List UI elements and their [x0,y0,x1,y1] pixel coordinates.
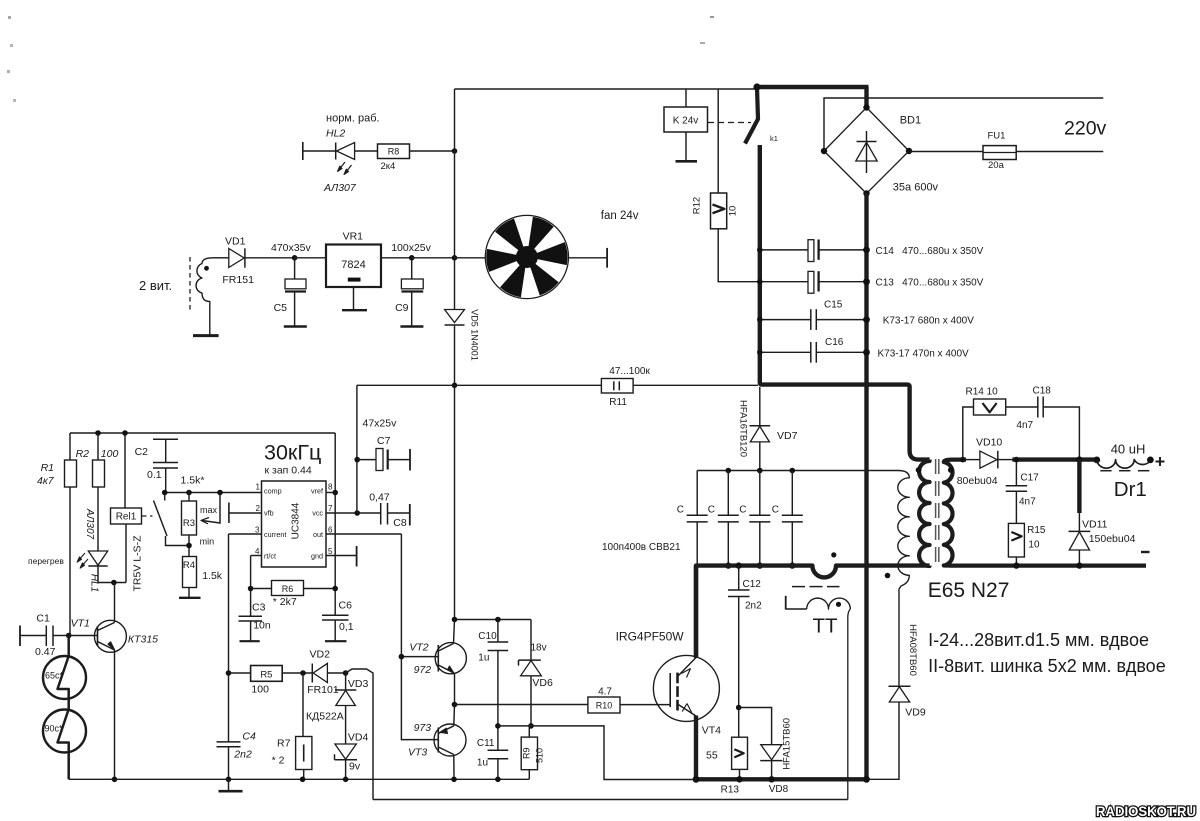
svg-text:R6: R6 [282,584,294,594]
svg-text:40 uH: 40 uH [1111,441,1146,456]
svg-text:HFA15TB60: HFA15TB60 [781,718,792,770]
pin2 terminal [229,512,262,514]
thick negative rail vertical [864,194,868,780]
IC UC3844 box [262,481,327,567]
node R13/VD8 [736,705,742,711]
svg-text:gnd: gnd [311,551,323,560]
svg-text:R10: R10 [596,701,613,711]
gnd pin5 terminal [326,555,357,557]
LED HL1 [88,551,107,565]
pin3 wire current sense [229,533,262,535]
svg-text:АЛ307: АЛ307 [84,508,95,540]
thick bottom emitter bus [694,777,867,781]
svg-text:C5: C5 [274,302,288,314]
svg-text:КТ315: КТ315 [128,634,158,646]
svg-text:C: C [739,505,746,516]
relay coil K 24v [664,107,708,132]
transistor VT4 IGBT circle [653,655,719,721]
svg-text:2n2: 2n2 [233,749,252,761]
VT4 collector arrow [682,669,691,678]
svg-text:0,47: 0,47 [369,491,390,503]
capacitor C13 (electrolytic) [808,271,814,293]
svg-text:VD8: VD8 [769,784,789,795]
potentiometer R3 [188,493,190,502]
BD1 vertex nodes [863,104,869,110]
thick primary bottom bus with TT hump [696,566,930,657]
svg-text:1u: 1u [478,652,489,663]
svg-text:510: 510 [535,748,545,763]
wire comp row [165,492,262,494]
wire out-line to VT2 base [401,656,438,658]
TT secondary winding [807,598,851,609]
svg-text:C13 470...680u x 350V: C13 470...680u x 350V [876,278,984,289]
svg-text:30кГц: 30кГц [264,441,321,465]
svg-text:I-24...28вит.d1.5 мм. вдвое: I-24...28вит.d1.5 мм. вдвое [928,630,1149,650]
svg-text:55: 55 [706,750,718,762]
svg-text:470x35v: 470x35v [271,242,311,254]
svg-text:4n7: 4n7 [1016,420,1033,431]
svg-text:VD5 1N4001: VD5 1N4001 [470,309,480,361]
fan motor symbol [485,215,568,298]
svg-text:10n: 10n [253,619,271,631]
relay Rel1 [122,430,128,436]
thermal switch contact [164,493,166,501]
transistor VT3 (973 PNP) [434,724,466,756]
capacitor C3 [248,586,254,592]
svg-text:VD4: VD4 [348,732,369,744]
svg-text:VD10: VD10 [976,437,1002,449]
capacitor C9 (electrolytic) [411,258,413,279]
svg-text:K73-17 680n x 400V: K73-17 680n x 400V [883,316,975,327]
bottom rail left [69,778,530,780]
svg-text:1u: 1u [477,758,488,769]
svg-text:C8: C8 [393,517,407,529]
svg-text:100x25v: 100x25v [391,242,431,254]
svg-text:47...100к: 47...100к [609,366,650,377]
resistor R4 [183,557,197,588]
svg-text:1.5k*: 1.5k* [181,475,205,487]
svg-text:80ebu04: 80ebu04 [957,475,998,487]
K24v ground [685,132,687,161]
capacitor C13 row wire [760,281,808,283]
thick bus: k1 contact down, across, into transformer primary [760,145,930,460]
svg-text:* 2k7: * 2k7 [273,596,297,608]
wire mid node to R10 [455,704,588,706]
svg-text:FU1: FU1 [988,131,1006,142]
out pin6 wire [326,533,401,535]
svg-text:K73-17 470n x 400V: K73-17 470n x 400V [878,348,970,359]
svg-text:20a: 20a [988,160,1005,171]
svg-text:1.5k: 1.5k [202,570,223,582]
VR1 ground pin [353,287,355,310]
thermal contact 90c [43,710,86,753]
pin4 wire rt/ct [251,555,262,557]
svg-text:5: 5 [328,547,333,556]
svg-text:comp: comp [264,486,282,495]
TT core dashes [792,586,805,588]
svg-text:7: 7 [328,504,333,513]
LED HL2 left terminal bar [302,142,304,160]
svg-text:R11: R11 [609,397,627,408]
wire jog to lower rail [346,669,373,800]
transformer secondary winding (thick arcs) [944,460,1146,566]
svg-text:TT: TT [812,615,838,638]
aux winding 2 turns [196,258,213,336]
svg-text:VT2: VT2 [409,642,428,654]
wire to relay coil K24v [685,89,687,107]
svg-text:4.7: 4.7 [598,687,612,698]
svg-text:R8: R8 [388,147,400,157]
wire +24v vertical rail [454,89,456,310]
node R7 branch [300,670,306,676]
text - output [1141,551,1150,553]
svg-text:BD1: BD1 [900,115,921,127]
svg-text:C4: C4 [242,731,256,743]
dashed relay link [708,122,751,124]
svg-text:Rel1: Rel1 [116,512,137,523]
svg-text:4к7: 4к7 [37,475,55,487]
svg-text:* 2: * 2 [272,755,285,767]
svg-text:R13: R13 [721,785,740,796]
node VD3 branch [343,670,349,676]
svg-text:FR151: FR151 [222,274,254,286]
resistor R5 [251,666,283,682]
svg-text:2: 2 [256,504,261,513]
svg-text:10: 10 [728,206,739,217]
snubber capacitor C #3 [759,471,761,516]
resistor R8 [378,144,410,159]
svg-text:C6: C6 [339,600,353,612]
dashed link Rel1 to thermal switch [142,515,153,517]
svg-text:7824: 7824 [341,259,365,271]
primary polarity dot [916,467,922,473]
svg-text:E65 N27: E65 N27 [928,579,1010,602]
diode VD7 [759,387,761,426]
svg-text:VT3: VT3 [408,747,427,759]
svg-text:R9: R9 [521,747,531,759]
transistor VT2 (972 NPN) [435,643,466,674]
svg-text:vfb: vfb [264,508,274,517]
vcc pin7 wire [326,512,381,514]
wire HL2 anode [303,150,336,152]
svg-text:HFA16TB120: HFA16TB120 [738,400,749,457]
wire R10 to gate [620,704,670,706]
LED HL2 diode symbol [335,143,337,160]
wire R8 to +24v vertical [410,150,455,152]
thick collector wire [694,566,698,658]
svg-text:out: out [313,530,323,539]
svg-text:0.47: 0.47 [35,646,56,658]
feedback winding polarity dot [885,573,891,579]
diode VD11 [1078,513,1080,531]
capacitor C12 [736,562,742,568]
resistor R15 [1008,523,1024,557]
svg-text:VR1: VR1 [343,230,364,242]
svg-text:C12: C12 [743,579,762,590]
resistor R6 [272,581,304,596]
wire HL2 to R8 [355,150,378,152]
node C5 [292,255,298,261]
svg-text:vcc: vcc [312,508,323,517]
capacitor C15 row [760,319,811,321]
svg-text:973: 973 [414,722,432,734]
VT4 collector lead [678,658,697,677]
wire driver top row [455,619,532,621]
thermal contact 65c [43,656,86,699]
wire C9 node to fan [412,257,486,259]
svg-text:2n2: 2n2 [745,601,762,612]
svg-text:R7: R7 [277,737,291,749]
svg-text:IRG4PF50W: IRG4PF50W [616,630,685,644]
svg-text:C: C [708,505,715,516]
vref vertical rail [334,433,336,615]
aux winding ground bar [193,334,219,337]
wire VD5 down to R11 row [454,325,456,385]
wire VD1 to C5 node [245,257,295,259]
wire C12 to R13 node [738,597,740,738]
wire top feed horizontal [455,88,758,90]
vcc vertical to R11 row [356,385,358,513]
svg-text:C14 470...680u x 350V: C14 470...680u x 350V [876,246,984,257]
svg-text:150ebu04: 150ebu04 [1089,533,1136,545]
wire to R12 [717,89,719,193]
secondary polarity dot [948,467,954,473]
svg-text:18v: 18v [531,643,547,654]
wire bridge right vertex to fuse [909,151,983,153]
svg-text:k1: k1 [770,134,778,143]
wire fan to terminal [569,257,608,259]
switch k1 blade (thick) [745,88,758,144]
aux winding polarity dot [204,266,209,271]
svg-text:R5: R5 [260,670,272,681]
svg-text:VD11: VD11 [1082,518,1108,530]
aux winding core dashed line [189,257,191,310]
wire R11 row [357,384,602,386]
svg-text:C7: C7 [377,435,391,447]
svg-text:АЛ307: АЛ307 [323,182,357,194]
wire VD9 to bottom bus [867,702,900,779]
HL1 emission arrows [77,553,88,568]
svg-text:R4: R4 [183,560,195,571]
main ground symbol [226,777,232,783]
wire C5 node to VR1 [295,257,326,259]
svg-text:RADIOSKOT.RU: RADIOSKOT.RU [1096,804,1196,819]
svg-text:C10: C10 [478,631,497,642]
snubber capacitor C #2 [727,471,729,516]
svg-text:Dr1: Dr1 [1114,478,1147,501]
TT right lead to lower rail [848,609,851,800]
wire node to VD8 [739,708,772,745]
diode VD5 1N4001 [445,310,465,323]
node R8/+24v [452,148,458,154]
snubber capacitor C #4 [791,471,793,516]
svg-text:100: 100 [251,684,269,696]
svg-text:к зап 0.44: к зап 0.44 [265,465,312,477]
capacitor C14 (electrolytic) [808,240,814,262]
svg-text:TR5V L-S-Z: TR5V L-S-Z [132,535,144,592]
svg-text:C17: C17 [1020,473,1039,484]
svg-text:vref: vref [311,486,323,495]
text + output [1156,457,1165,466]
svg-text:220v: 220v [1064,118,1107,140]
TT left terminal [786,608,807,610]
thick secondary positive bus [1012,457,1097,461]
VT4 emitter arrow [682,704,692,713]
svg-text:2к4: 2к4 [381,161,396,172]
svg-text:3: 3 [255,525,260,534]
fan terminal bar [606,248,608,268]
capacitor C17 [1015,460,1017,486]
svg-text:UC3844: UC3844 [291,502,302,539]
svg-text:max: max [200,505,218,515]
wire bridge left vertex to 220v line [824,98,1103,151]
TT hump polarity dot [831,552,836,557]
capacitor C5 (electrolytic) [294,258,296,279]
svg-text:перегрев: перегрев [28,556,64,566]
node R11 row [452,383,458,389]
svg-text:rt/ct: rt/ct [264,551,276,560]
svg-text:VD7: VD7 [777,430,798,442]
svg-text:VD1: VD1 [225,236,246,248]
scan specks [8,16,11,19]
svg-text:4n7: 4n7 [1019,497,1036,508]
svg-text:8: 8 [328,483,333,492]
svg-text:R1: R1 [41,462,54,474]
R4 ground bar [179,597,201,599]
snubber capacitor C #1 [696,471,698,516]
svg-text:КД522А: КД522А [306,711,344,723]
svg-text:C18: C18 [1033,385,1052,396]
capacitor C14 row wire [760,249,808,251]
svg-text:VT4: VT4 [702,725,721,737]
node driver mid [452,702,458,708]
thick bus top horizontal [755,85,869,89]
wire out-line to VT3 base [401,657,438,740]
snubber bottom node dots [725,562,731,568]
svg-text:fan 24v: fan 24v [601,210,639,222]
svg-text:VT1: VT1 [71,618,90,630]
thick wire bus to bridge top [864,87,868,108]
diode VD8 [761,745,782,760]
R3 wiper [202,493,220,524]
thick stub to VD11 [1077,460,1081,513]
feedback winding (thin arcs) [898,471,910,687]
capacitor C10 [497,620,499,643]
top rail y=433 [70,432,335,434]
svg-text:K 24v: K 24v [673,116,699,127]
svg-text:0,1: 0,1 [339,621,354,633]
LED HL2 emission arrows [338,162,352,174]
svg-text:35a 600v: 35a 600v [893,182,939,194]
svg-text:R15: R15 [1027,525,1046,536]
wire R12 to C13 row [718,229,760,282]
current sense node [226,670,232,676]
transformer core dashed lines [935,459,937,568]
svg-text:min: min [200,537,215,547]
VT4 emitter lead [678,704,697,716]
svg-text:C3: C3 [252,602,266,614]
wire fuse to 220v [1016,151,1103,153]
svg-text:C15: C15 [824,300,843,311]
resistor R9 [528,726,530,737]
svg-text:VD2: VD2 [310,649,331,661]
transformer primary winding (thick arcs) [919,460,930,566]
wire VD7 to snubber row [759,442,761,471]
svg-text:2 вит.: 2 вит. [139,278,172,293]
bridge rectifier BD1 diamond [824,108,909,194]
svg-text:0.1: 0.1 [147,469,162,481]
node C9 [409,255,415,261]
capacitor C11 [488,749,509,751]
svg-text:9v: 9v [349,761,361,773]
snubber top wire [697,470,898,472]
svg-text:VD6: VD6 [532,677,553,689]
svg-text:R12: R12 [692,197,703,214]
svg-text:R3: R3 [183,518,195,529]
node thick bus top [753,83,760,90]
svg-text:C16: C16 [825,337,844,348]
wire HL1 to Rel1 bottom [98,566,126,583]
vref pin stub [326,492,335,494]
svg-text:100п400в CBB21: 100п400в CBB21 [602,542,681,553]
svg-text:HFA08TB60: HFA08TB60 [907,624,918,676]
svg-text:норм. раб.: норм. раб. [326,113,380,125]
TT secondary polarity dot [836,602,841,607]
node main vertical / 24v rail [452,255,458,261]
svg-text:R2: R2 [76,448,90,460]
diode VD3 КД522А [345,673,347,690]
svg-text:C2: C2 [135,446,149,458]
svg-text:current: current [264,530,286,539]
node VT1 base [66,633,72,639]
svg-text:C11: C11 [477,738,495,749]
BD1 inner diode [866,131,868,173]
svg-text:100: 100 [101,448,119,460]
svg-text:C9: C9 [395,302,409,314]
svg-text:VD3: VD3 [348,678,369,690]
node VD11 branch [1076,456,1082,462]
svg-text:10: 10 [1028,540,1040,551]
svg-text:R14 10: R14 10 [966,387,999,398]
svg-text:972: 972 [414,664,432,676]
diode VD9 [889,685,911,687]
svg-text:4: 4 [255,547,260,556]
svg-text:FR101: FR101 [307,684,339,696]
thermal contact chain [58,636,69,780]
svg-text:C: C [677,505,684,516]
wire mid row to R9 and down [498,726,696,780]
wire VR1 to C9 node [381,257,412,259]
svg-text:6: 6 [328,525,333,534]
svg-text:47x25v: 47x25v [363,418,398,430]
thick emitter wire [694,716,698,780]
wire R3 to R4 [188,535,190,557]
wire down to driver stage [454,385,456,619]
lower return rail [373,799,848,801]
capacitor C16 row [760,351,811,353]
VT4 gate bar [669,673,671,707]
VT4 channel dashes [676,673,679,684]
wire winding to VD1 [213,257,229,259]
svg-text:II-8вит. шинка 5х2 мм. вдвое: II-8вит. шинка 5х2 мм. вдвое [928,656,1166,676]
svg-text:HL2: HL2 [326,128,345,140]
svg-text:VD9: VD9 [905,707,926,719]
svg-text:C1: C1 [36,613,50,625]
svg-text:1: 1 [256,483,261,492]
resistor R13 [732,737,748,769]
svg-text:C: C [772,505,779,516]
